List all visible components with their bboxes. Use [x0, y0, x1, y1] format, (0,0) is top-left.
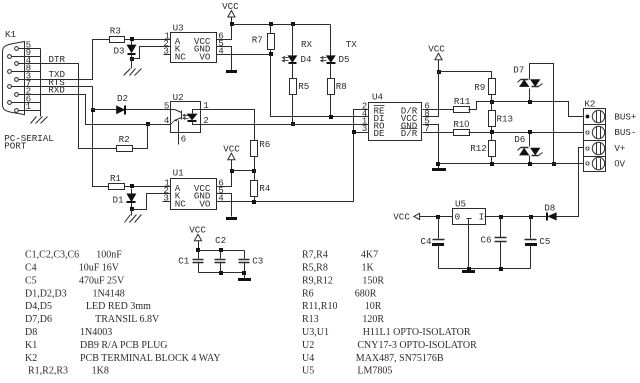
K1 pin numbers	[26, 39, 32, 112]
wire U2 pin2 RO line to U4	[201, 124, 369, 126]
svg-text:BUS-: BUS-	[614, 127, 636, 138]
wire U1 pin4 VO to U4 DE	[217, 133, 354, 202]
svg-text:R6: R6	[302, 288, 314, 299]
transil D6	[518, 133, 543, 164]
svg-text:C3: C3	[252, 255, 263, 266]
node junction R4/VO line	[252, 200, 256, 204]
wire DTR: K1 pin4 to R2	[19, 64, 117, 149]
svg-text:U3,U1: U3,U1	[302, 327, 329, 338]
ground bar U4	[432, 168, 446, 171]
svg-text:V+: V+	[614, 143, 625, 154]
svg-text:C1: C1	[178, 255, 190, 266]
svg-text:D4: D4	[301, 54, 313, 65]
svg-text:10uF 16V: 10uF 16V	[79, 263, 120, 274]
parts list right column	[302, 250, 477, 377]
connector K1 DB9	[3, 42, 41, 117]
svg-text:VCC: VCC	[393, 211, 410, 222]
wire U3 pin6 VCC riser	[217, 25, 232, 40]
svg-text:C4: C4	[421, 236, 433, 247]
power VCC symbol top	[222, 1, 239, 25]
resistor R11	[454, 107, 470, 113]
resistor R4	[251, 171, 258, 202]
resistor R9	[489, 79, 496, 95]
capacitor C2	[215, 251, 226, 273]
node junction RTS/D2	[91, 108, 95, 112]
svg-text:D6: D6	[514, 134, 525, 145]
node junction R8/DI line	[329, 115, 333, 119]
svg-text:R9: R9	[474, 82, 485, 93]
svg-text:R2: R2	[119, 134, 130, 145]
svg-text:1N4148: 1N4148	[93, 288, 125, 299]
node junction R1/D1	[130, 184, 134, 188]
svg-text:120R: 120R	[362, 314, 384, 325]
wire VCC branch to R9	[439, 72, 492, 79]
wire RXD: K1 pin2 to U2 pin4	[19, 95, 171, 125]
svg-text:I: I	[479, 212, 485, 223]
svg-text:U1: U1	[173, 168, 185, 179]
LED D5	[321, 25, 336, 79]
svg-text:4K7: 4K7	[361, 250, 378, 261]
resistor R6	[251, 141, 258, 171]
LED inside U2	[183, 110, 201, 125]
power VCC arrow left of U5	[393, 211, 452, 222]
svg-text:R6: R6	[259, 139, 270, 150]
svg-text:NC: NC	[175, 198, 187, 209]
svg-text:CNY17-3 OPTO-ISOLATOR: CNY17-3 OPTO-ISOLATOR	[357, 340, 477, 351]
wire R2 to U2 pin4 line	[133, 125, 148, 149]
node junction DE/VO riser	[352, 130, 356, 134]
ground bar C3	[238, 273, 251, 282]
svg-text:R5,R8: R5,R8	[302, 263, 328, 274]
node junction R3/D3	[130, 37, 134, 41]
node junction rail A / D7	[528, 100, 532, 104]
svg-text:K1: K1	[5, 29, 17, 40]
transistor inside U2	[171, 110, 182, 133]
svg-text:BUS+: BUS+	[614, 112, 636, 123]
svg-text:R8: R8	[336, 81, 347, 92]
wire VCC top rail	[232, 24, 331, 26]
svg-text:C5: C5	[25, 275, 37, 286]
power VCC symbol above C1	[189, 225, 206, 251]
diode D1	[126, 189, 136, 210]
svg-text:K2: K2	[25, 353, 37, 364]
wire VCC branch to R6/R4 junction	[232, 170, 254, 172]
svg-text:U2: U2	[173, 92, 184, 103]
svg-text:D1: D1	[113, 194, 125, 205]
wire RTS: K1 pin7 down to R1	[12, 87, 109, 187]
node labels DTR TXD RTS RXD	[48, 54, 65, 96]
svg-text:5: 5	[164, 101, 170, 112]
capacitor C4	[432, 217, 445, 269]
svg-text:6: 6	[181, 133, 187, 144]
LED D4	[282, 25, 297, 79]
ground bar U1	[226, 217, 237, 220]
node junction C2 bottom	[219, 271, 223, 275]
resistor R7	[268, 25, 275, 55]
svg-text:D2: D2	[117, 93, 128, 104]
svg-text:1N4003: 1N4003	[80, 327, 112, 338]
node junction C6	[499, 215, 503, 219]
svg-text:150R: 150R	[362, 275, 384, 286]
svg-text:D8: D8	[25, 327, 37, 338]
wire R9 to rail A	[491, 95, 493, 102]
wire U1 pin6 VCC riser	[217, 171, 232, 187]
wire V+ from K2 down to D8	[557, 148, 584, 217]
ground chassis under D3	[124, 59, 142, 76]
node junction GND/0V rail	[436, 162, 440, 166]
node junction D3/ground/U3 K	[130, 57, 134, 61]
svg-text:0V: 0V	[614, 159, 625, 170]
wire R3 to U3 pin1	[125, 39, 171, 41]
wire TXD: K1 pin3 up to R3	[19, 40, 110, 80]
svg-text:R11,R10: R11,R10	[302, 301, 337, 312]
resistor R8	[328, 79, 335, 117]
diode D2	[93, 105, 171, 114]
wire U4 pin7 to R10	[423, 132, 454, 134]
wire VCC down to U4 pin8	[423, 72, 439, 117]
opto-isolator U2 CNY17-3	[164, 92, 209, 145]
transil D7	[518, 64, 554, 164]
svg-text:TX: TX	[346, 39, 358, 50]
resistor R3	[110, 37, 125, 43]
wire U1 pin5 GND stem	[217, 194, 232, 217]
diode D3	[127, 41, 137, 59]
svg-text:R5: R5	[298, 81, 309, 92]
ground bar U5	[462, 270, 475, 273]
wire U5 ground rail	[439, 268, 531, 270]
svg-text:C4: C4	[25, 263, 37, 274]
node junction R5/RO line	[291, 122, 295, 126]
node junction R13 bottom	[490, 130, 494, 134]
wire C1C2C3 bottom rail	[199, 272, 245, 274]
wire U2 pin1 to R6	[201, 110, 255, 141]
svg-text:D7,D6: D7,D6	[25, 314, 52, 325]
svg-text:R7: R7	[252, 34, 263, 45]
svg-text:1K8: 1K8	[92, 366, 109, 377]
svg-text:U4: U4	[372, 92, 384, 103]
node junction R6/R4	[252, 169, 256, 173]
wire R1 to U1 pin1	[125, 186, 171, 188]
svg-text:10R: 10R	[365, 301, 382, 312]
svg-text:LM7805: LM7805	[357, 366, 392, 377]
svg-text:VCC: VCC	[222, 1, 239, 12]
svg-text:U5: U5	[302, 366, 314, 377]
parts list left column	[25, 250, 221, 377]
ground chassis under D1	[125, 210, 142, 223]
svg-text:R13: R13	[302, 314, 319, 325]
terminal block K2	[584, 99, 606, 172]
wire rail A to BUS+	[492, 102, 584, 117]
svg-text:U4: U4	[302, 353, 314, 364]
node junction VCC rail / U3 pin6	[230, 22, 234, 26]
node junction C4	[436, 215, 440, 219]
ground chassis under K1	[31, 117, 48, 124]
svg-text:VO: VO	[199, 198, 211, 209]
svg-text:R9,R12: R9,R12	[302, 275, 333, 286]
label PC-SERIAL PORT	[4, 133, 54, 152]
svg-text:D8: D8	[544, 202, 555, 213]
resistor R2	[117, 146, 133, 152]
wire U3 pin4 VO to R7 column	[217, 54, 271, 56]
wire C1C2C3 top rail	[199, 250, 245, 252]
node junction C5	[529, 215, 533, 219]
ground bar U3	[226, 70, 237, 73]
svg-text:K2: K2	[584, 99, 595, 110]
node junction rail/R7	[269, 22, 273, 26]
svg-text:R12: R12	[470, 143, 487, 154]
svg-text:U3: U3	[173, 23, 184, 34]
svg-text:D5: D5	[339, 54, 350, 65]
svg-text:1K: 1K	[362, 263, 375, 274]
svg-text:1: 1	[26, 101, 32, 112]
node junction C3 bottom	[242, 271, 246, 275]
node junction rail A / R13 top	[490, 100, 494, 104]
resistor R13	[489, 102, 496, 133]
wire U5 output rail	[485, 216, 547, 218]
power VCC symbol above U1	[223, 144, 240, 171]
svg-text:D3: D3	[114, 45, 125, 56]
svg-text:100nF: 100nF	[96, 250, 122, 261]
svg-text:PORT: PORT	[4, 141, 27, 152]
node junction C1 top	[196, 248, 200, 252]
wire U3 pin5 GND stem	[217, 47, 232, 71]
svg-text:0: 0	[455, 212, 461, 223]
wire R10 line to BUS-	[469, 132, 584, 134]
svg-text:VO: VO	[199, 51, 211, 62]
node junction rail/D4	[291, 22, 295, 26]
svg-text:C1,C2,C3,C6: C1,C2,C3,C6	[25, 250, 79, 261]
wire R11 to rail A	[469, 102, 492, 110]
svg-text:D4,D5: D4,D5	[25, 301, 52, 312]
svg-text:K1: K1	[25, 340, 37, 351]
svg-text:U2: U2	[302, 340, 314, 351]
node labels BUS+ BUS- V+ 0V	[614, 112, 636, 170]
wire U4 pin6 to R11	[423, 109, 454, 111]
svg-text:R1: R1	[110, 173, 122, 184]
svg-text:R7,R4: R7,R4	[302, 250, 328, 261]
node junction R7/VO	[269, 52, 273, 56]
node junction R12 bottom	[490, 162, 494, 166]
svg-text:PCB TERMINAL BLOCK 4 WAY: PCB TERMINAL BLOCK 4 WAY	[80, 353, 221, 364]
node junction D1/ground/U1 K	[130, 207, 134, 211]
node junction R2/RXD	[146, 122, 150, 126]
node junction VCC/U1 pin6/R6R4	[230, 169, 234, 173]
svg-text:470uF 25V: 470uF 25V	[79, 275, 125, 286]
svg-text:NC: NC	[175, 51, 187, 62]
svg-text:R10: R10	[453, 119, 469, 130]
svg-text:H11L1 OPTO-ISOLATOR: H11L1 OPTO-ISOLATOR	[363, 327, 471, 338]
node junction D6 bottom	[528, 162, 532, 166]
node junction C2 top	[219, 248, 223, 252]
diode D8	[485, 212, 557, 220]
wire 0V rail	[439, 163, 584, 165]
node junction VCC/R9 branch	[437, 70, 441, 74]
wire U3 pin2 K to D3 cathode	[132, 47, 171, 59]
wire R7 column down to U4 DI	[271, 55, 369, 117]
resistor R12	[489, 133, 496, 164]
svg-text:D/R: D/R	[401, 128, 418, 139]
opto-isolator U3 H11L1	[163, 23, 224, 63]
svg-text:DE: DE	[374, 128, 386, 139]
capacitor C5	[525, 217, 538, 269]
svg-text:R4: R4	[259, 183, 271, 194]
svg-text:R1,R2,R3: R1,R2,R3	[28, 366, 68, 377]
pin6 stub U2	[178, 133, 180, 145]
svg-text:C6: C6	[481, 234, 492, 245]
capacitor C3	[239, 251, 250, 273]
svg-text:C5: C5	[539, 236, 550, 247]
svg-text:RX: RX	[301, 39, 313, 50]
svg-text:VCC: VCC	[428, 43, 445, 54]
wire U4 RE/DE tie	[354, 110, 369, 133]
node junction D7 riser / 0V rail	[552, 162, 556, 166]
svg-text:MAX487, SN75176B: MAX487, SN75176B	[356, 353, 444, 364]
capacitor C6	[495, 217, 507, 269]
svg-text:C2: C2	[215, 235, 226, 246]
node junction C6 bottom	[499, 267, 503, 271]
wire U4 pin5 GND	[423, 125, 439, 169]
svg-text:4: 4	[164, 115, 170, 126]
resistor R1	[109, 184, 125, 190]
svg-text:D7: D7	[513, 64, 524, 75]
svg-text:TRANSIL 6.8V: TRANSIL 6.8V	[95, 314, 160, 325]
svg-text:R3: R3	[110, 26, 121, 37]
svg-text:680R: 680R	[355, 288, 377, 299]
node junction U5 ground	[467, 267, 471, 271]
wire U1 pin2 K to D1 cathode	[132, 194, 171, 210]
svg-text:R11: R11	[454, 96, 471, 107]
svg-text:R13: R13	[497, 114, 514, 125]
svg-text:D1,D2,D3: D1,D2,D3	[25, 288, 67, 299]
svg-text:LED RED 3mm: LED RED 3mm	[86, 301, 151, 312]
power VCC symbol right	[428, 43, 445, 71]
transceiver U4 MAX487	[362, 92, 430, 141]
regulator U5 LM7805	[453, 199, 486, 269]
capacitor C1	[193, 251, 204, 273]
svg-text:DB9 R/A PCB PLUG: DB9 R/A PCB PLUG	[80, 340, 168, 351]
opto-isolator U1 H11L1	[163, 168, 225, 210]
node junction D6 top	[528, 130, 532, 134]
resistor R5	[290, 79, 297, 125]
resistor R10	[454, 130, 470, 136]
svg-text:U5: U5	[455, 199, 466, 210]
